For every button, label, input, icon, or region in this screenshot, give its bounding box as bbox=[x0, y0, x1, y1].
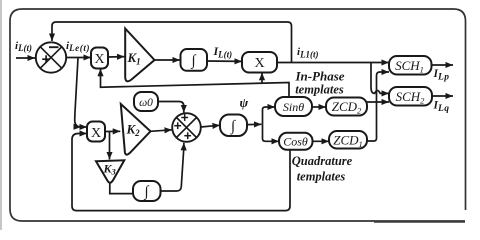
sine template generator Sin0 bbox=[275, 97, 312, 116]
svg-text:Sinθ: Sinθ bbox=[283, 100, 304, 114]
wire: psi junction vertical with arrows into Sin and Cos bbox=[263, 107, 280, 141]
wire: ZCD2 output to SCH2 bottom input bbox=[367, 101, 389, 103]
svg-text:X: X bbox=[91, 126, 101, 141]
integrator INT3 bbox=[133, 181, 161, 201]
svg-text:Cosθ: Cosθ bbox=[283, 135, 308, 149]
wire: input i_L(t) into summing junction bbox=[16, 57, 35, 59]
amplifier K2 bbox=[121, 104, 151, 155]
wire: i_L1 branch down with hop to SCH2 top input bbox=[371, 63, 389, 94]
wire: sine template feed to X1 and X2 bottom inputs bbox=[101, 69, 290, 97]
svg-text:SCH1: SCH1 bbox=[395, 58, 424, 75]
svg-text:templates: templates bbox=[297, 170, 346, 184]
svg-text:X: X bbox=[254, 56, 264, 71]
amplifier K3 bbox=[96, 160, 124, 182]
wire: X3 to amplifier K2 bbox=[105, 130, 120, 132]
sample-hold SCH2 bbox=[389, 87, 432, 106]
svg-text:ψ: ψ bbox=[240, 95, 249, 110]
integrator INT1 bbox=[181, 49, 208, 71]
wire: SCH2 output bbox=[432, 95, 453, 97]
wire: K2 to summing junction S2 bbox=[151, 130, 173, 132]
wire: X1 to amplifier K1 bbox=[108, 56, 125, 58]
wire: K3 to integrator INT3 bbox=[110, 184, 133, 194]
summing junction S1 bbox=[36, 42, 66, 72]
wire: X2 output i_L1(t) to SCH1 top input bbox=[277, 62, 389, 64]
wire: cosine feedback from Cos bottom around to X3 bottom input bbox=[72, 134, 290, 211]
zero-cross detector ZCD2 bbox=[326, 98, 367, 116]
multiplier X2 bbox=[242, 52, 277, 73]
amplifier K1 bbox=[125, 29, 154, 82]
svg-text:Quadrature: Quadrature bbox=[292, 154, 353, 168]
wire: i_Le branch down to multiplier X3 top input bbox=[75, 58, 81, 127]
svg-text:In-Phase: In-Phase bbox=[294, 69, 344, 84]
frequency reference w0 bbox=[134, 92, 158, 111]
label Quadrature templates bbox=[292, 154, 353, 184]
wire: INT3 output up into S2 bottom bbox=[161, 143, 184, 191]
wire: i_Le(t) from S1 to multiplier X1 bbox=[66, 57, 91, 59]
svg-text:X: X bbox=[94, 52, 104, 67]
wire: K1 to integrator INT1 bbox=[155, 59, 181, 61]
label In-Phase templates bbox=[294, 69, 344, 97]
sample-hold SCH1 bbox=[389, 56, 432, 75]
wire: Cos to ZCD1 bbox=[313, 140, 330, 142]
svg-text:ZCD1: ZCD1 bbox=[333, 133, 363, 150]
integrator INT2 bbox=[220, 115, 247, 137]
wire: Sin to ZCD2 bbox=[312, 106, 326, 108]
wire: branch down to K3 bbox=[109, 132, 111, 160]
cosine template generator Cos0 bbox=[279, 133, 313, 150]
wire: ZCD1 output up to SCH1 bottom input bbox=[367, 72, 389, 141]
multiplier X3 bbox=[87, 122, 105, 142]
wire: S2 to integrator INT2 bbox=[201, 125, 220, 127]
wire: INT2 output psi to junction bbox=[247, 123, 262, 125]
wire: w0 into S2 top bbox=[158, 102, 184, 113]
wire: SCH1 output bbox=[432, 64, 454, 66]
multiplier X1 bbox=[91, 48, 108, 69]
zero-cross detector ZCD1 bbox=[329, 131, 367, 149]
svg-text:templates: templates bbox=[295, 83, 344, 97]
summing junction S2 bbox=[172, 113, 201, 142]
svg-text:ω0: ω0 bbox=[139, 97, 153, 109]
wire: INT1 to multiplier X2 bbox=[207, 60, 242, 62]
wire: feedback i_L1 from X2 output up and left into S1 top bbox=[52, 22, 292, 63]
